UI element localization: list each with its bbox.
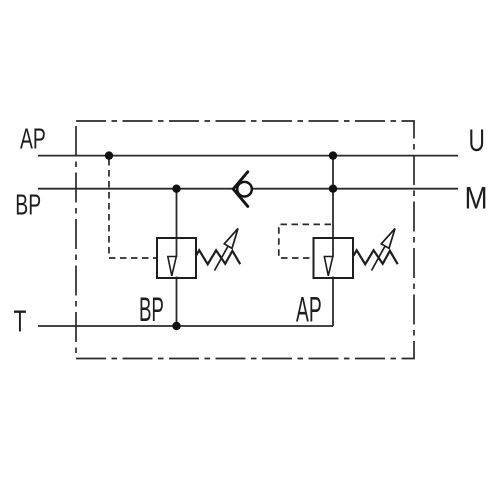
relief valve V2 internal arrow [324, 257, 333, 276]
wire T line [38, 325, 333, 327]
junction dot BP-right branch [329, 185, 337, 193]
svg-text:U: U [469, 122, 485, 158]
svg-text:BP: BP [15, 190, 41, 222]
wire right valve vertical [332, 156, 334, 257]
relief valve V2 body [314, 238, 354, 278]
pilot line (dashed) to left valve V1 [109, 159, 156, 258]
junction dot AP-right branch [329, 151, 337, 159]
relief valve V1 internal arrow [168, 257, 177, 276]
check valve seat [233, 172, 248, 207]
svg-text:M: M [465, 181, 488, 216]
junction dot T line [172, 322, 180, 330]
junction dot BP-left valve [172, 185, 180, 193]
junction dot AP-pilot [105, 151, 113, 159]
check valve ball [237, 182, 252, 197]
enclosure boundary (dash-dot box) [76, 121, 414, 359]
relief valve V2 spring [354, 250, 398, 264]
wire BP line right of check valve [252, 188, 458, 190]
relief valve V2 adjustment arrow [372, 246, 386, 271]
svg-text:AP: AP [296, 289, 322, 329]
wire AP line [38, 155, 458, 157]
relief valve V1 spring [196, 250, 240, 264]
svg-text:AP: AP [20, 124, 46, 156]
wire BP line left of check valve [38, 188, 234, 190]
wire left valve vertical [176, 189, 178, 257]
svg-text:BP: BP [139, 290, 164, 328]
svg-text:T: T [13, 303, 26, 338]
relief valve V1 body [157, 238, 196, 278]
relief valve V1 adjustment arrow [215, 246, 229, 271]
pilot line (dashed) to right valve V2 [279, 224, 331, 258]
